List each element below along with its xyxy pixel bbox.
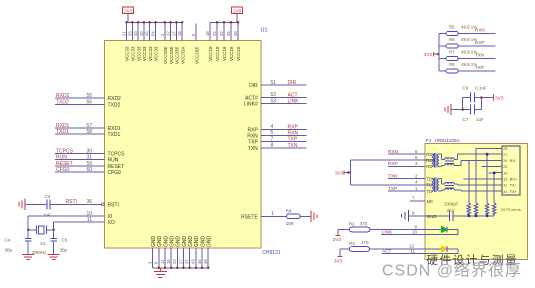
svg-text:10K: 10K	[286, 221, 294, 226]
svg-text:XO: XO	[108, 220, 115, 226]
svg-text:28: 28	[503, 147, 507, 151]
transformer TX core	[434, 178, 436, 192]
capacitor C6 0.1uF	[469, 93, 471, 103]
transformer TX primary coil	[432, 179, 434, 191]
svg-text:56: 56	[86, 99, 92, 105]
svg-text:32: 32	[219, 31, 224, 36]
wire net LINK to P1 pin 10	[382, 234, 426, 236]
svg-text:RXP: RXP	[248, 127, 259, 133]
ground (P1 pin 8)	[408, 210, 410, 221]
svg-text:0.1uF: 0.1uF	[475, 86, 487, 91]
wire net RXP from U1 pin 4	[261, 128, 307, 130]
U1 pin 6 VCC18E	[195, 23, 197, 40]
svg-text:VCC33: VCC33	[142, 46, 147, 61]
U1 pin 19 VCC33A	[181, 22, 183, 40]
wire termination rail	[453, 215, 494, 217]
svg-text:HR911105A: HR911105A	[435, 138, 461, 144]
choke RX top winding	[445, 158, 454, 160]
svg-text:60: 60	[86, 167, 92, 173]
wire vertical term 2	[475, 148, 477, 202]
svg-text:3V3: 3V3	[124, 8, 132, 13]
svg-text:VCC33E: VCC33E	[175, 46, 180, 64]
svg-text:TX-: TX-	[510, 184, 517, 188]
svg-text:1uF: 1uF	[476, 117, 484, 122]
svg-text:11: 11	[410, 249, 415, 254]
svg-text:37: 37	[185, 259, 190, 264]
wire R8 to net TXP	[458, 70, 495, 72]
power 3V3 symbol (R2)	[337, 230, 339, 236]
svg-text:NC: NC	[427, 199, 433, 204]
wire vertical joins C6 C7 left	[462, 98, 464, 110]
svg-text:26: 26	[503, 159, 507, 163]
svg-text:U1: U1	[261, 28, 268, 34]
wire P1 pin8 to capacitor	[425, 215, 450, 217]
svg-text:GND: GND	[200, 236, 206, 248]
ground (right of R4)	[310, 211, 312, 223]
wire top branch C6	[463, 97, 471, 99]
svg-text:2: 2	[160, 33, 165, 36]
svg-text:1V8: 1V8	[233, 8, 241, 13]
wire 3V3 to R8	[439, 70, 446, 72]
U1 pin 21 VCC33	[126, 22, 128, 40]
svg-text:X1: X1	[40, 241, 46, 246]
svg-text:RXP: RXP	[388, 161, 398, 167]
svg-text:52: 52	[271, 92, 277, 98]
wire net TXP from U1 pin 7	[261, 141, 307, 143]
wire net LINK from U1 pin 53	[261, 103, 307, 105]
svg-text:TXN: TXN	[288, 143, 298, 149]
svg-text:46: 46	[197, 259, 202, 264]
wire net RXN from U1 pin 5	[261, 134, 307, 136]
wire 3V3 to R2	[338, 229, 350, 231]
node junction pin34 vertical	[493, 172, 496, 175]
svg-text:R7: R7	[449, 50, 455, 55]
wire net TXD2 to U1 pin 56	[55, 103, 105, 105]
svg-text:2: 2	[415, 173, 418, 178]
LED green LINK inside P1	[425, 229, 441, 231]
power 3V3 symbol (right of C6)	[493, 95, 495, 101]
ground (below C5)	[48, 254, 60, 256]
svg-text:6: 6	[415, 149, 418, 154]
U1 pin 16 GND	[170, 248, 172, 268]
wire P1 pin 25 internal	[482, 166, 496, 168]
svg-text:TXD2: TXD2	[108, 102, 121, 108]
svg-text:24: 24	[212, 31, 217, 36]
svg-text:3V3: 3V3	[424, 52, 433, 57]
svg-text:GND: GND	[182, 236, 188, 248]
U1 pin 2 VCC33E	[164, 22, 166, 40]
svg-text:RD+: RD+	[426, 152, 435, 157]
wire 3V3 to R3	[340, 248, 349, 250]
wire vertical joins C6 C7 right	[480, 98, 482, 110]
capacitor C3 1uF	[46, 199, 48, 209]
wire 3V3 bus (top of U1)	[127, 21, 183, 23]
svg-text:TXN: TXN	[248, 146, 258, 152]
svg-text:DIR: DIR	[288, 80, 297, 86]
wire vertical term 1	[468, 160, 470, 202]
wire net RXD1 to U1 pin 57	[55, 127, 105, 129]
svg-text:GND: GND	[194, 236, 200, 248]
svg-text:RXN: RXN	[288, 130, 299, 136]
U1 pin 12 VCC33E	[170, 22, 172, 40]
svg-text:30p: 30p	[5, 248, 13, 253]
wire P1 pin 33 internal	[464, 178, 496, 180]
svg-text:RXP: RXP	[288, 124, 299, 130]
wire R3 to P1 pin 12	[370, 248, 426, 250]
svg-text:R2: R2	[349, 222, 355, 227]
svg-text:32: 32	[503, 184, 507, 188]
wire vertical term 4	[493, 173, 495, 203]
svg-text:VCC18: VCC18	[229, 46, 234, 61]
svg-text:40: 40	[139, 31, 144, 36]
svg-text:26: 26	[127, 31, 132, 36]
svg-text:470: 470	[361, 240, 369, 245]
svg-text:53: 53	[271, 98, 277, 104]
wire net TXN from U1 pin 8	[261, 147, 307, 149]
IC U1 CH9121 chip body	[105, 41, 261, 249]
svg-text:54: 54	[151, 31, 156, 36]
svg-text:TD-: TD-	[426, 189, 434, 194]
node junction XO-crystal	[53, 229, 55, 231]
svg-text:VCC33A: VCC33A	[180, 46, 185, 64]
svg-text:XI: XI	[108, 214, 113, 220]
svg-text:VCC33: VCC33	[154, 46, 159, 61]
svg-text:4X75 ohms: 4X75 ohms	[501, 207, 521, 212]
capacitor C7 1uF	[469, 105, 471, 115]
capacitor 1000pF 2KV	[449, 211, 451, 221]
svg-text:21: 21	[122, 31, 127, 36]
svg-text:RSTI: RSTI	[108, 202, 119, 208]
node junction rail 2	[475, 214, 478, 217]
svg-text:TCPCS: TCPCS	[108, 152, 126, 158]
svg-text:30: 30	[86, 149, 92, 155]
wire TX choke top output	[454, 183, 457, 185]
ground (below U1 GND pins)	[159, 268, 161, 272]
svg-text:3V3: 3V3	[335, 170, 344, 175]
capacitor C5 30p	[53, 230, 55, 239]
svg-text:11: 11	[87, 217, 92, 223]
U1 pin 37 GND	[189, 248, 191, 268]
U1 pin 26 VCC33	[131, 22, 133, 40]
wire C6 to 3V3	[475, 97, 494, 99]
svg-text:33: 33	[503, 177, 507, 181]
svg-text:C7: C7	[463, 117, 469, 122]
svg-text:RXD1: RXD1	[56, 123, 70, 129]
svg-text:GND: GND	[188, 236, 194, 248]
RJ45 pin 32 TX-	[496, 184, 503, 186]
svg-text:34: 34	[503, 171, 507, 175]
svg-text:1: 1	[415, 186, 418, 191]
node junction XI-crystal	[27, 229, 29, 231]
svg-text:16: 16	[166, 259, 171, 264]
LED yellow ACT inside P1	[425, 248, 441, 250]
svg-text:3: 3	[147, 261, 152, 264]
svg-text:RXD2: RXD2	[56, 93, 70, 99]
svg-text:R8: R8	[449, 62, 455, 67]
svg-text:TXD2: TXD2	[56, 99, 69, 105]
svg-text:11: 11	[160, 259, 165, 264]
U1 pin 46 VCC33	[149, 22, 151, 40]
RJ45 pin 33 RX+	[496, 178, 503, 180]
svg-text:C6: C6	[463, 86, 469, 91]
wire R5 to net RXN	[458, 33, 495, 35]
U1 pin 38 VCC18	[237, 22, 239, 40]
svg-text:VCC33: VCC33	[136, 46, 141, 61]
choke RX bottom winding	[445, 164, 454, 166]
wire R6 to net RXP	[458, 45, 495, 47]
svg-text:LINK#: LINK#	[244, 102, 258, 108]
svg-text:34: 34	[226, 31, 231, 36]
svg-text:RXP: RXP	[475, 40, 484, 45]
svg-text:VCC33E: VCC33E	[163, 46, 168, 64]
U1 pin 11 GND	[164, 248, 166, 268]
wire net DIR from U1 pin 51	[261, 84, 307, 86]
svg-text:ACT#: ACT#	[245, 95, 258, 101]
svg-text:7: 7	[412, 196, 415, 201]
svg-text:RX-: RX-	[510, 159, 517, 163]
wire net RUN to U1 pin 31	[55, 159, 105, 161]
svg-text:CSDN @络界很厚: CSDN @络界很厚	[382, 261, 522, 280]
transformer RX primary coil	[432, 154, 434, 166]
resistor R4 10K	[287, 214, 301, 219]
U1 pin 22 GND	[176, 248, 178, 268]
svg-text:19: 19	[177, 31, 182, 36]
svg-text:8: 8	[412, 210, 415, 215]
resistor R3 470	[349, 247, 369, 252]
svg-text:RESET: RESET	[108, 164, 125, 170]
U1 pin 9 GND	[158, 248, 160, 268]
svg-text:DIR: DIR	[249, 83, 258, 89]
wire TX center tap	[425, 184, 432, 186]
wire RX center tap	[425, 159, 432, 161]
node junction RX+ vertical	[486, 153, 489, 156]
svg-text:10: 10	[86, 211, 92, 217]
svg-text:12: 12	[166, 31, 171, 36]
wire R7 to net TXN	[458, 58, 495, 60]
wire R4 to ground	[300, 215, 311, 217]
transformer RX secondary coil	[437, 154, 439, 166]
svg-text:ACT: ACT	[288, 92, 298, 98]
power 3V3 symbol (top of U1)	[123, 7, 134, 14]
U1 pin 18 VCC18	[209, 22, 211, 40]
wire RX secondary top to choke	[439, 153, 442, 155]
wire TX secondary bottom to choke	[439, 190, 442, 192]
svg-text:48: 48	[203, 259, 208, 264]
svg-text:C4: C4	[5, 238, 11, 243]
svg-text:17: 17	[171, 31, 176, 36]
wire RSETE from U1 pin 1	[261, 215, 287, 217]
svg-text:31: 31	[86, 155, 92, 161]
U1 pin 33 VCC33	[137, 22, 139, 40]
svg-text:R6: R6	[449, 37, 455, 42]
svg-text:VCC18: VCC18	[236, 46, 241, 61]
svg-text:RXN: RXN	[247, 133, 258, 139]
svg-text:TXP: TXP	[388, 186, 397, 192]
wire net CFG0 to U1 pin 60	[55, 171, 105, 173]
RJ45 pin 28	[496, 147, 503, 149]
svg-text:3: 3	[415, 161, 418, 166]
svg-text:TCPCS: TCPCS	[56, 149, 74, 155]
svg-text:GND: GND	[170, 236, 176, 248]
choke TX core	[445, 185, 454, 187]
svg-text:4: 4	[415, 180, 418, 185]
wire net TXN to P1 pin 2	[388, 178, 425, 180]
U1 pin 46 GND	[201, 248, 203, 268]
U1 pin 34 VCC18	[230, 22, 232, 40]
svg-text:VCC33: VCC33	[148, 46, 153, 61]
wire 3V3 to R7	[439, 58, 446, 60]
wire 3V3 to R5	[439, 33, 446, 35]
svg-text:R3: R3	[349, 241, 355, 246]
ground (below C4)	[22, 254, 34, 256]
wire net TCPCS to U1 pin 30	[55, 153, 105, 155]
svg-text:58: 58	[86, 129, 92, 135]
svg-text:5: 5	[415, 155, 418, 160]
svg-text:1: 1	[271, 211, 274, 217]
resistor R6 49.9 1%	[446, 44, 458, 48]
resistor termination 2 (75 ohm)	[474, 203, 477, 216]
svg-text:46: 46	[145, 31, 150, 36]
svg-text:GND: GND	[151, 236, 157, 248]
ground (left of C7)	[444, 108, 446, 112]
U1 pin 43 GND	[195, 248, 197, 268]
wire 3V3 to R6	[439, 45, 446, 47]
svg-text:RXD1: RXD1	[108, 126, 122, 132]
capacitor C4 30p	[27, 230, 29, 239]
U1 pin 24 VCC18	[216, 22, 218, 40]
power 3V3 symbol (R3)	[339, 249, 341, 257]
wire RX choke bottom output	[454, 164, 461, 166]
svg-text:GND: GND	[207, 236, 213, 248]
choke TX bottom winding	[445, 188, 454, 190]
svg-text:25: 25	[503, 165, 507, 169]
wire net RXD2 to U1 pin 55	[55, 97, 105, 99]
wire GND bus below U1	[153, 267, 209, 269]
svg-text:27: 27	[503, 153, 507, 157]
wire net ACT to P1 pin 11	[382, 253, 425, 255]
P1 pin 7 NC stub	[410, 200, 425, 202]
svg-text:RUN: RUN	[56, 155, 67, 161]
svg-text:C3: C3	[45, 194, 51, 199]
svg-text:27: 27	[178, 259, 183, 264]
wire ground to P1 pin 8 GND	[409, 215, 426, 217]
wire net ACT from U1 pin 52	[261, 96, 307, 98]
svg-text:VCC18E: VCC18E	[194, 46, 199, 64]
svg-text:GND: GND	[176, 236, 182, 248]
svg-text:51: 51	[271, 80, 277, 86]
svg-text:CH9121: CH9121	[262, 250, 281, 256]
resistor termination 4 (75 ohm)	[493, 203, 496, 216]
svg-text:3V3: 3V3	[334, 259, 343, 264]
svg-text:CFG0: CFG0	[108, 170, 122, 176]
U1 pin 54 VCC33	[155, 22, 157, 40]
svg-text:TX+: TX+	[510, 190, 518, 194]
svg-text:22: 22	[172, 259, 177, 264]
svg-text:VCC18: VCC18	[208, 46, 213, 61]
resistor termination 3 (75 ohm)	[485, 203, 488, 216]
svg-text:9: 9	[154, 261, 159, 264]
svg-text:RESET: RESET	[56, 161, 73, 167]
wire XI to U1 pin 10	[28, 215, 104, 217]
node junction rail 3	[486, 214, 489, 217]
svg-text:1000pF: 1000pF	[444, 202, 459, 207]
wire vertical term 3	[486, 154, 488, 202]
RJ45 pin 34	[496, 172, 503, 174]
svg-text:36: 36	[86, 199, 92, 205]
svg-text:CFG0: CFG0	[56, 167, 70, 173]
svg-text:55: 55	[86, 93, 92, 99]
svg-text:VCC33: VCC33	[131, 46, 136, 61]
wire 3V3 to P1 pin 4 TCT	[350, 184, 425, 186]
wire P1 pin 28 internal	[476, 147, 496, 149]
resistor R2 470	[350, 227, 371, 232]
svg-text:C5: C5	[62, 238, 68, 243]
svg-text:RSETE: RSETE	[241, 214, 258, 220]
svg-text:RX+: RX+	[510, 177, 518, 181]
svg-text:3V3: 3V3	[333, 237, 342, 242]
U1 pin 17 VCC33E	[175, 22, 177, 40]
svg-text:LINK: LINK	[288, 99, 300, 105]
RJ45 pin 26 RX-	[496, 159, 503, 161]
wire R2 to P1 pin 9	[370, 229, 425, 231]
wire RX choke top output	[454, 158, 457, 160]
svg-text:GND: GND	[163, 236, 169, 248]
svg-text:470: 470	[360, 221, 368, 226]
svg-text:59: 59	[86, 161, 92, 167]
svg-text:VCC18: VCC18	[222, 46, 227, 61]
wire net TXP to P1 pin 1	[388, 190, 425, 192]
connector RJ45 contact block	[502, 146, 520, 195]
svg-text:18: 18	[205, 31, 210, 36]
svg-text:TXN: TXN	[475, 53, 484, 58]
RJ45 pin 27	[496, 153, 503, 155]
svg-text:43: 43	[191, 259, 196, 264]
resistor R7 49.9 1%	[446, 56, 458, 60]
svg-text:6: 6	[191, 33, 196, 36]
svg-text:10: 10	[412, 229, 418, 234]
wire RX secondary bottom to choke	[439, 165, 442, 167]
svg-text:TXD1: TXD1	[108, 132, 121, 138]
svg-text:1uF: 1uF	[43, 213, 51, 218]
svg-text:31: 31	[503, 190, 507, 194]
svg-text:30MHz: 30MHz	[32, 250, 47, 255]
svg-text:TXP: TXP	[475, 65, 484, 70]
svg-text:VCC33E: VCC33E	[169, 46, 174, 64]
svg-text:57: 57	[86, 123, 92, 129]
svg-text:RXD2: RXD2	[108, 96, 122, 102]
wire TX secondary top to choke	[439, 178, 442, 180]
svg-text:ACT: ACT	[382, 249, 392, 255]
choke TX top winding	[445, 182, 454, 184]
RJ45 pin 31 TX+	[496, 190, 503, 192]
svg-text:TXD1: TXD1	[56, 129, 69, 135]
svg-text:TXN: TXN	[388, 173, 398, 179]
U1 pin 48 GND	[207, 248, 209, 268]
wire ground to C3	[25, 203, 47, 205]
node junction rail 1	[467, 214, 470, 217]
RJ45 pin 25	[496, 166, 503, 168]
transformer TX secondary coil	[437, 179, 439, 191]
svg-text:VCC18: VCC18	[215, 46, 220, 61]
svg-text:TXP: TXP	[288, 137, 298, 143]
U1 pin 27 GND	[183, 248, 185, 268]
svg-text:38: 38	[233, 31, 238, 36]
svg-text:5: 5	[271, 130, 274, 136]
svg-text:3V3: 3V3	[495, 96, 504, 101]
svg-text:RUN: RUN	[108, 158, 119, 164]
resistor termination 1 (75 ohm)	[467, 203, 470, 216]
wire net RXN to P1 pin 6	[388, 153, 425, 155]
